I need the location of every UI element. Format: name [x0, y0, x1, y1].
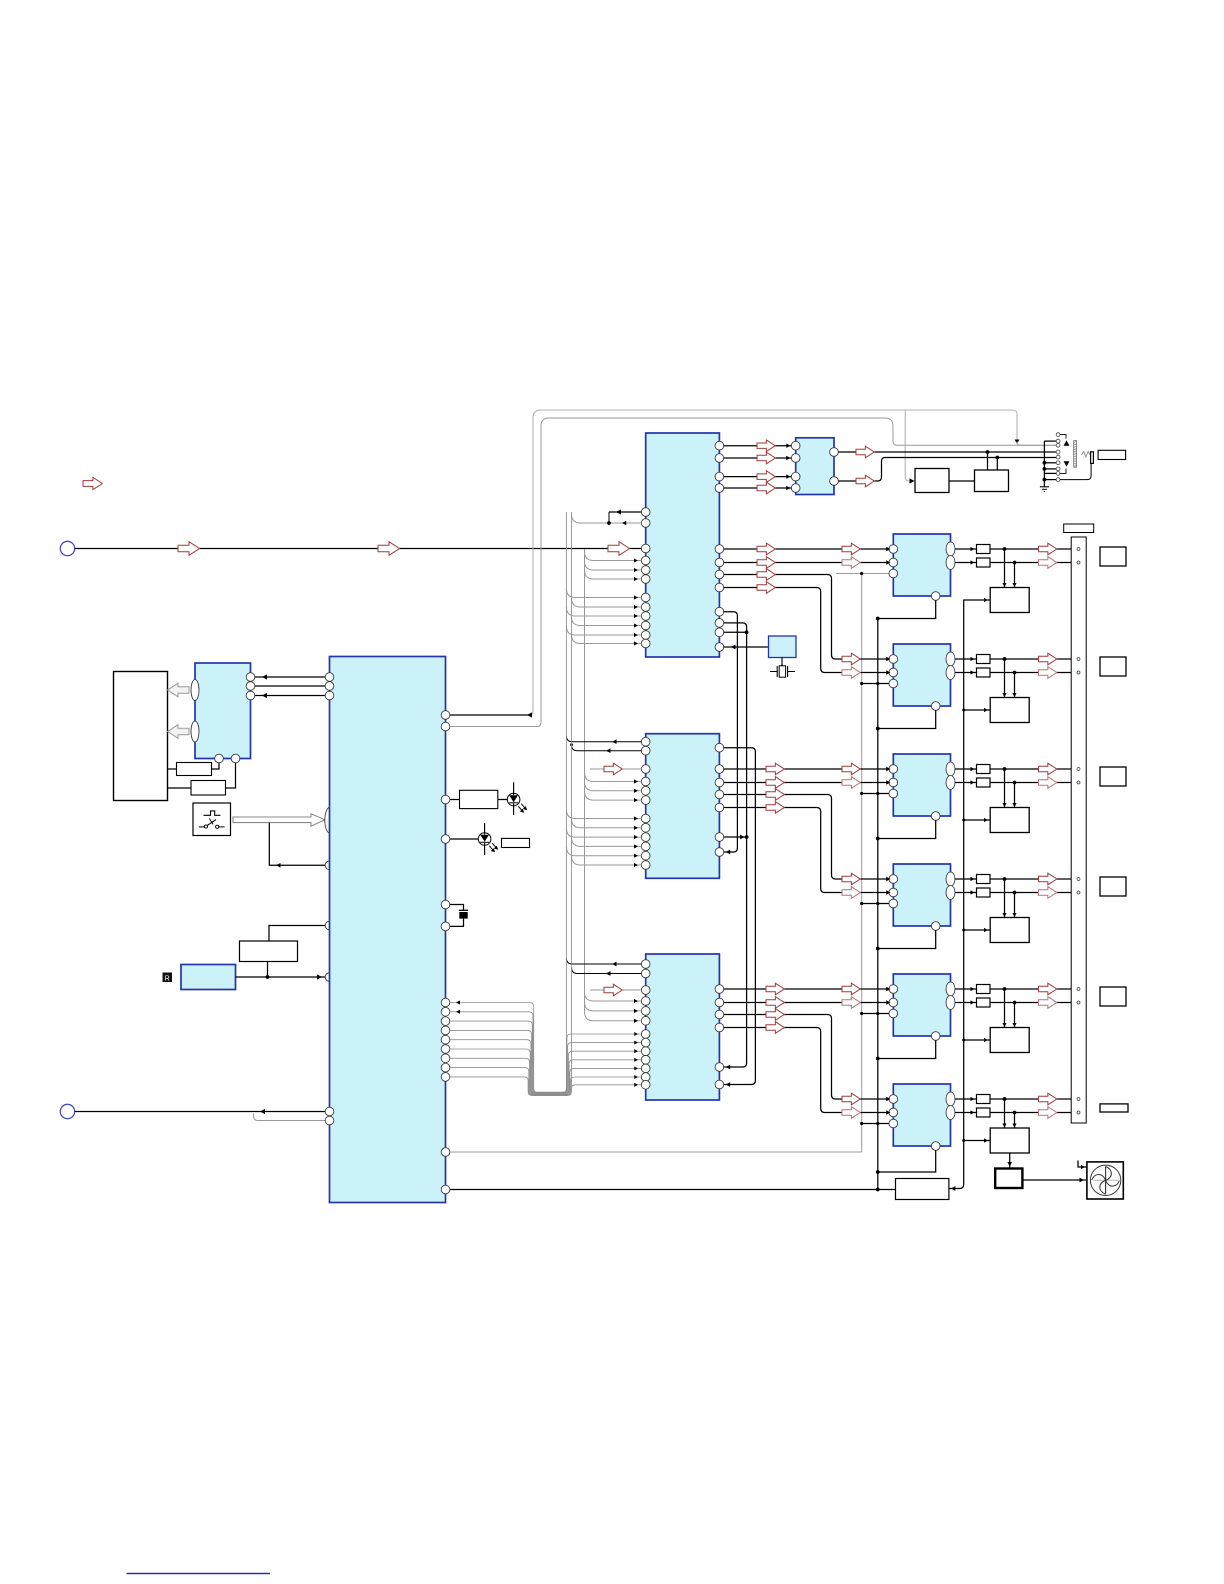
wire IC501-R510: [450, 799, 460, 801]
power amp IC706: [893, 1084, 950, 1146]
IC601 right pin g1-2: [715, 454, 724, 463]
ferrite FB4b: [977, 888, 991, 897]
IC704 in pin a: [889, 875, 898, 884]
display module DISP1: [114, 672, 168, 801]
wire disp-R802: [168, 787, 192, 789]
muting relay RY701: [915, 469, 949, 493]
arrowhead ctl 1: [634, 595, 638, 599]
bus wire 5: [450, 1040, 641, 1094]
bus branch ctl 4: [572, 617, 642, 626]
IC603 left pin t2: [641, 746, 650, 755]
fan driver box (thick): [995, 1169, 1022, 1189]
label box LED2: [502, 838, 530, 847]
output arrow 3a: [1039, 763, 1057, 775]
output arrow 3b: [1039, 777, 1057, 789]
arrowhead ctl 4: [634, 623, 638, 627]
bus arrow to display 2: [168, 725, 190, 739]
arrowhead IC604 gray 2: [634, 1009, 638, 1013]
IC705 gnd wire: [878, 1040, 936, 1058]
arrowhead ctl 3: [634, 614, 638, 618]
wire rail-FL3: [964, 819, 991, 821]
speaker terminal box SP6: [1100, 1104, 1128, 1112]
switch lead r: [219, 826, 225, 828]
arrowhead c: [262, 693, 267, 698]
ferrite FB2a: [977, 655, 991, 664]
ferrite FB2b: [977, 668, 991, 677]
wire IC802 to IC501: [236, 976, 326, 978]
bus branch IC603 ctl 3: [566, 828, 641, 837]
audio DSP IC601: [646, 433, 720, 657]
jack resistor squiggle: [1082, 452, 1091, 458]
feedback wire m2: [572, 745, 642, 751]
IC501 right bus pin 3: [441, 1017, 450, 1026]
headphone amp IC602: [796, 438, 834, 495]
headphone jack contact 1: [1056, 433, 1060, 437]
arrowhead IC603 gray 3: [634, 798, 638, 802]
IC706 arrowhead a: [886, 1097, 890, 1101]
junction 5b: [1013, 1001, 1017, 1005]
bus riser arrow 2: [456, 1010, 460, 1014]
output arrow 4a: [1039, 873, 1057, 885]
power switch S901: [193, 803, 231, 836]
cooling fan FAN901: [1087, 1162, 1123, 1199]
drv3 arrow out1b: [842, 983, 860, 995]
bus vertical 3: [584, 556, 586, 1012]
IC701 arrowhead a: [886, 547, 890, 551]
IC603 left ctl pin 5: [641, 851, 650, 860]
IC501 right pin led1: [441, 795, 450, 804]
jack stub row8: [1044, 472, 1056, 474]
IC601 left gray pin 1: [641, 556, 650, 565]
IC601 left ctl pin 1: [641, 593, 650, 602]
arrowhead IC603 ctl 2: [634, 826, 638, 830]
ferrite FB3a: [977, 765, 991, 774]
arrowhead t2: [622, 521, 626, 525]
bus branch IC604 gray 1: [585, 992, 642, 1001]
IC706 in pin a: [889, 1095, 898, 1104]
wire FB1b to connector: [990, 562, 1071, 564]
bus branch IC603 ctl 6: [572, 856, 642, 865]
clock line v2: [724, 623, 747, 1067]
IC701 in pin c: [889, 569, 898, 578]
IC603 left gray pin 3: [641, 796, 650, 805]
IC703 feedback branch: [862, 793, 889, 795]
IC601 left gray pin 2: [641, 566, 650, 575]
arrowhead v2: [726, 1065, 731, 1070]
signal arrow into IC601: [608, 542, 630, 556]
wire R510-LED: [498, 799, 508, 801]
drv2 arrow out4b: [842, 887, 860, 899]
drv3 arrow out4a: [766, 1022, 784, 1034]
IC604 bus pin 2: [641, 1038, 650, 1047]
IC501 pin standby: [325, 921, 334, 930]
drv3 wire out1: [724, 988, 889, 990]
IC705 arrowhead a: [886, 987, 890, 991]
output arrow 2a: [1039, 653, 1057, 665]
IC601 left input pin: [641, 544, 650, 553]
arrowhead b1: [612, 962, 617, 967]
wire FB5a to connector: [990, 988, 1071, 990]
IC601 right pin g2-2: [715, 558, 724, 567]
bus arrow to display 1: [168, 683, 190, 697]
bus branch ctl 3: [566, 607, 641, 616]
junction 1a: [1003, 547, 1007, 551]
signal arrow on J1 wire 1: [178, 542, 200, 556]
IC604 right out 1: [715, 985, 724, 994]
IC604 bus pin 7: [641, 1080, 650, 1089]
speaker terminal box SP3: [1100, 767, 1126, 786]
wire B901 down join: [267, 962, 269, 978]
arrowhead m1: [612, 739, 617, 744]
IC601 left ctl pin 3: [641, 612, 650, 621]
svg-text:R: R: [165, 975, 170, 982]
bus branch ctl 6: [572, 635, 642, 644]
IC501 right pin cap1: [441, 900, 450, 909]
rail junction 1: [876, 617, 880, 621]
CN701 terminal 2a: [1077, 658, 1080, 661]
arrowhead into B701: [910, 478, 915, 483]
feedback wire b2: [572, 968, 642, 974]
IC601 left ctl pin 6: [641, 639, 650, 648]
bus arrowhead 8: [634, 1075, 638, 1079]
wire rail-FL2: [964, 709, 991, 711]
IC702 in pin a: [889, 655, 898, 664]
IC706 out oval b: [946, 1106, 955, 1120]
IC603 right out 2: [715, 778, 724, 787]
IC702 arrowhead b: [886, 670, 890, 674]
arrowhead gray 3: [634, 577, 638, 581]
drv2 arrow out3b: [842, 873, 860, 885]
standalone flow arrow (top left): [83, 477, 102, 489]
IC501 left pin 1: [325, 673, 334, 682]
jack contact blade 1: [1064, 440, 1070, 446]
headphone jack contact 9: [1056, 478, 1060, 482]
drv2 wire out4 dogleg: [724, 808, 889, 893]
speaker terminal box SP1: [1100, 547, 1126, 566]
IC601 left gray pin 3: [641, 575, 650, 584]
IC706 arrowhead b: [886, 1110, 890, 1114]
remote badge: [163, 973, 173, 983]
bus arrowhead 3: [634, 1032, 638, 1036]
junction 1b: [1013, 561, 1017, 565]
wire rail-FL1: [964, 599, 991, 601]
drv1 wire out4 dogleg: [724, 588, 889, 673]
CN701 terminal 5a: [1077, 988, 1080, 991]
power amp IC701: [893, 534, 950, 596]
fan hook wire: [1078, 1161, 1087, 1168]
crystal lead: [781, 658, 783, 667]
headphone driver B701: [975, 470, 1009, 492]
IC604 bus pin 1: [641, 1030, 650, 1039]
wire FB3a to connector: [990, 768, 1071, 770]
ferrite FB4a: [977, 875, 991, 884]
IC604 bus pin 4: [641, 1055, 650, 1064]
CN701 label box: [1064, 524, 1094, 533]
IC604 right pin d2: [715, 1080, 724, 1089]
junction 4b: [1013, 891, 1017, 895]
drv1 arrow out3b: [842, 653, 860, 665]
power supply box B902: [896, 1179, 949, 1200]
CN701 terminal 3a: [1077, 768, 1080, 771]
IC705 bottom pin: [931, 1032, 940, 1041]
bus branch IC603 ctl 2: [572, 819, 642, 828]
headphone jack label box: [1098, 450, 1126, 459]
junction B901: [266, 975, 270, 979]
IC705 in pin c: [889, 1009, 898, 1018]
IC601 left pin t2: [641, 519, 650, 528]
IC603 left ctl pin 1: [641, 814, 650, 823]
IC801 left oval pin 2: [191, 721, 199, 742]
IC604 right out 3: [715, 1010, 724, 1019]
drv3 arrow out2a: [766, 997, 784, 1009]
bus arrowhead 7: [634, 1066, 638, 1070]
IC603 left pin t1: [641, 737, 650, 746]
IC801 right pin 3: [246, 691, 255, 700]
wire R801 up to pin: [212, 763, 220, 769]
ferrite FB3b: [977, 778, 991, 787]
supply rail into B902: [949, 1185, 964, 1189]
arrow IC601-IC602 2: [757, 452, 775, 464]
display driver IC801: [195, 663, 251, 759]
IC705 arrowhead b: [886, 1000, 890, 1004]
jack sleeve bar: [1091, 452, 1094, 464]
IC702 arrowhead a: [886, 657, 890, 661]
wire IC501 to frame: [450, 714, 529, 716]
IC604 right out 4: [715, 1023, 724, 1032]
amp feedback rail (black): [877, 618, 879, 1190]
arrowhead ctl 6: [634, 641, 638, 645]
bus riser arrow 1: [456, 1000, 460, 1004]
IC704 bottom pin: [931, 922, 940, 931]
wire FB6a to connector: [990, 1098, 1071, 1100]
arrowhead a: [262, 674, 267, 679]
IC601 left ctl pin 4: [641, 621, 650, 630]
arrowhead gray 1: [634, 558, 638, 562]
IC604 bus pin 6: [641, 1073, 650, 1082]
IC601 right pin g2-4: [715, 583, 724, 592]
jack hatched strip: [1074, 441, 1077, 468]
feedback wire t1: [609, 511, 641, 513]
junction to relay 1: [986, 450, 990, 454]
ground symbol: [1040, 486, 1049, 488]
junction 3b: [1013, 781, 1017, 785]
speaker terminal box SP2: [1100, 657, 1126, 676]
output arrow 6b: [1039, 1107, 1057, 1119]
IC501 left pin 3: [325, 691, 334, 700]
bus branch IC603 gray 3: [585, 791, 642, 800]
IC604 bus pin 5: [641, 1064, 650, 1073]
IC604 left pin t1: [641, 960, 650, 969]
IC501 right bus pin 4: [441, 1026, 450, 1035]
IC705 out oval b: [946, 996, 955, 1010]
output arrow 1b: [1039, 557, 1057, 569]
drv1 arrow out4a: [757, 582, 775, 594]
IC604 right out 2: [715, 998, 724, 1007]
IC706 bottom pin: [931, 1142, 940, 1151]
IC706 in pin c: [889, 1119, 898, 1128]
LED D502: [478, 833, 491, 846]
drv1 wire out1: [724, 548, 889, 550]
drv2 arrow out4a: [766, 802, 784, 814]
drv1 arrow out2a: [757, 557, 775, 569]
CN701 terminal 1a: [1077, 548, 1080, 551]
LC filter block FL3: [990, 808, 1029, 833]
IC501 left pin 5: [325, 1116, 334, 1125]
footer rule: [127, 1573, 271, 1575]
wire FB4a to connector: [990, 878, 1071, 880]
input jack J1 (top left): [60, 541, 74, 555]
IC701 in pin b: [889, 558, 898, 567]
IC702 in pin b: [889, 668, 898, 677]
arrowhead IC602 3: [786, 474, 790, 478]
IC704 out oval a: [946, 872, 955, 886]
wire out b: [955, 1002, 977, 1004]
IC604 left gray pin 1: [641, 997, 650, 1006]
IC603 left ctl pin 6: [641, 861, 650, 870]
power amp IC703: [893, 754, 950, 816]
jack common vertical: [1043, 441, 1045, 487]
LC filter block FL6: [990, 1128, 1029, 1153]
arrowhead IC603 ctl 4: [634, 844, 638, 848]
wire IC602 out2: [838, 458, 1056, 482]
arrowhead IC602 2: [786, 456, 790, 460]
wire IC601-IC602 4: [724, 487, 792, 489]
drv3 arrow out4b: [842, 1107, 860, 1119]
ferrite FB6b: [977, 1108, 991, 1117]
IC501 pin remote: [325, 973, 334, 982]
LC filter block FL1: [990, 588, 1029, 613]
IC702 in pin c: [889, 679, 898, 688]
IC501 right pin gray: [441, 1148, 450, 1157]
feedback jog t1: [608, 512, 610, 523]
rail junction 2: [876, 727, 880, 731]
output arrow 2b: [1039, 667, 1057, 679]
wire IC601 p3 join: [724, 631, 747, 633]
drv1 arrow out2b: [842, 557, 860, 569]
IC604 left gray pin 2: [641, 1007, 650, 1016]
drv3 wire out4 dogleg: [724, 1028, 889, 1113]
IC702 bottom pin: [931, 702, 940, 711]
arrowhead frame wire: [527, 712, 532, 717]
IC603 right out 4: [715, 803, 724, 812]
frame arrowhead: [1015, 440, 1020, 445]
IC602 left pin 3: [791, 472, 800, 481]
branch wire to IC501 int pin: [269, 823, 325, 866]
gray lead-in b: [590, 989, 641, 991]
IC601 left ctl pin 2: [641, 603, 650, 612]
LED D501: [507, 793, 520, 806]
arrowhead v3: [726, 1082, 731, 1087]
headphone jack contact 8: [1056, 472, 1060, 476]
IC704 arrowhead b: [886, 890, 890, 894]
switch contact b: [216, 825, 219, 828]
bus wire 3: [450, 1021, 641, 1093]
junction to relay 2: [995, 456, 999, 460]
CN701 terminal 3b: [1077, 781, 1080, 784]
drv2 arrow out1a: [766, 763, 784, 775]
ferrite FB6a: [977, 1095, 991, 1104]
frame wire to jack row: [1017, 442, 1057, 446]
wire IC601 to X601: [724, 646, 769, 648]
LC filter block FL4: [990, 918, 1029, 943]
drv2 wire out1: [724, 768, 889, 770]
IC601 right pin g3-4: [715, 643, 724, 652]
PWM modulator IC604: [646, 954, 720, 1100]
speaker terminal box SP4: [1100, 877, 1126, 896]
IC604 left gray pin 3: [641, 1016, 650, 1025]
IC701 in pin a: [889, 545, 898, 554]
wire IC501 to B901: [269, 926, 325, 942]
jack stub row2: [1044, 440, 1056, 442]
IC704 out oval b: [946, 886, 955, 900]
bus riser wire 1: [450, 512, 566, 1092]
return wire from IC501: [254, 1114, 326, 1121]
wire rail-FL6: [964, 1140, 991, 1142]
power amp IC705: [893, 974, 950, 1036]
system control IC501: [330, 657, 446, 1203]
IC603 right pin d1: [715, 833, 724, 842]
bus arrowhead 6: [634, 1058, 638, 1062]
wire FB2b to connector: [990, 672, 1071, 674]
IC604 right pin clk?: [715, 1063, 724, 1072]
arrow IC602 out1: [856, 446, 874, 458]
arrowhead IC603 ctl 3: [634, 835, 638, 839]
junction 2b: [1013, 671, 1017, 675]
jack contact blade 2: [1064, 461, 1070, 467]
wire FB2a to connector: [990, 658, 1071, 660]
wire out b: [955, 892, 977, 894]
power amp IC704: [893, 864, 950, 926]
CN701 terminal 6b: [1077, 1111, 1080, 1114]
arrowhead v2b: [740, 835, 745, 840]
crystal buffer X601: [769, 636, 797, 658]
IC801 right pin 2: [246, 682, 255, 691]
drv1 wire out2: [724, 562, 889, 564]
IC601 right pin g3-3: [715, 628, 724, 637]
IC604 bus pin 3: [641, 1047, 650, 1056]
IC501 right pin fanctl: [441, 1185, 450, 1194]
IC603 left ctl pin 3: [641, 833, 650, 842]
arrowhead int: [276, 863, 281, 868]
IC601 left pin t1: [641, 508, 650, 517]
IC501 left pin 2: [325, 682, 334, 691]
IC703 in pin b: [889, 778, 898, 787]
IC801 bottom pin 2: [231, 754, 240, 763]
IC704 feedback branch: [862, 903, 889, 905]
wire out a: [955, 988, 977, 990]
output arrow 5a: [1039, 983, 1057, 995]
drv2 arrow out2a: [766, 777, 784, 789]
switch lead l: [199, 826, 205, 828]
CN701 terminal 4b: [1077, 891, 1080, 894]
regulator box B901: [240, 941, 298, 962]
IC705 feedback branch: [862, 1013, 889, 1015]
IC705 out oval a: [946, 982, 955, 996]
IC704 gnd wire: [878, 930, 936, 948]
wire out b: [955, 562, 977, 564]
clock line v1: [724, 612, 738, 852]
feedback rail horizontal: [836, 573, 889, 575]
CN701 terminal 6a: [1077, 1098, 1080, 1101]
wire FB4b to connector: [990, 892, 1071, 894]
junction 6b: [1013, 1111, 1017, 1115]
wire rail-FL5: [964, 1039, 991, 1041]
IC601 right pin g2-1: [715, 545, 724, 554]
resistor R801: [177, 763, 212, 776]
IC601 right pin g3-1: [715, 607, 724, 616]
wire IC601-IC602 1: [724, 445, 792, 447]
IC703 arrowhead a: [886, 767, 890, 771]
